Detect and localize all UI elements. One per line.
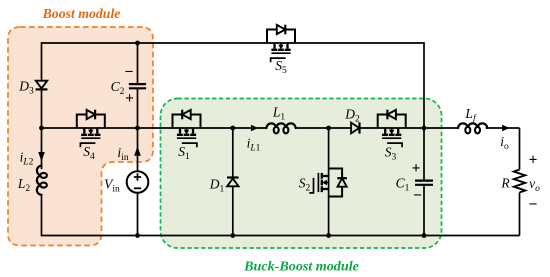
MOSFET S1 (173, 110, 201, 148)
current arrow i_L1 (251, 125, 259, 132)
svg-text:Boost module: Boost module (42, 6, 121, 21)
junction node row C1 (422, 126, 427, 131)
inductor Lf (458, 123, 487, 128)
junction bottom Vin (135, 233, 140, 238)
capacitor C1 (415, 180, 433, 182)
junction C2 top rail (135, 41, 140, 46)
wire output right branch upper (519, 128, 521, 170)
inductor L1 (267, 123, 296, 128)
wire L2 branch upper (41, 128, 43, 169)
current arrow i_L2 (38, 152, 45, 162)
inductor L2 (37, 166, 47, 195)
svg-text:R: R (500, 176, 510, 191)
wire L2 branch lower + bottom rail (42, 195, 520, 236)
diode D3 (36, 81, 47, 89)
Buck-Boost module region (161, 99, 442, 249)
wire left branch D3 cathode to node row (41, 89, 43, 128)
current arrow i_in (134, 146, 141, 156)
resistor R (514, 170, 525, 193)
wire S2 branch (328, 128, 330, 236)
wire Vin branch lower (137, 193, 139, 236)
junction bottom C1 (422, 233, 427, 238)
Boost module region (8, 27, 153, 246)
wire C2 branch upper (137, 43, 139, 84)
junction bottom S2 (326, 233, 331, 238)
wire node row middle segment (L1 to Lf) (295, 127, 458, 129)
junction node row S2 (326, 126, 331, 131)
MOSFET S5 (267, 25, 295, 63)
current arrow i_o (502, 125, 510, 132)
wire C1 branch upper (423, 128, 425, 180)
svg-text:−: − (529, 196, 538, 213)
wire D1 branch (232, 128, 234, 236)
svg-text:−: − (125, 64, 134, 81)
diode D2 (351, 123, 359, 134)
MOSFET S2 (309, 169, 347, 197)
wire C2 branch lower (137, 88, 139, 128)
junction node row C2/Vin (135, 126, 140, 131)
svg-text:+: + (412, 160, 421, 177)
voltage source Vin (127, 171, 149, 193)
svg-text:+: + (529, 152, 538, 169)
MOSFET S4 (77, 110, 105, 148)
svg-text:+: + (125, 90, 134, 107)
wire Vin branch upper (137, 128, 139, 171)
diode D1 (227, 179, 238, 187)
capacitor C2 (129, 83, 146, 85)
wire output right branch lower (519, 193, 521, 236)
junction bottom D1 (230, 233, 235, 238)
svg-text:Buck-Boost module: Buck-Boost module (243, 259, 359, 275)
junction node row D1 (230, 126, 235, 131)
wire top rail (D3 top to S5 to right corner) (42, 43, 425, 128)
wire node row right segment (Lf to output corner) (486, 127, 520, 129)
wire C1 branch lower (423, 185, 425, 236)
MOSFET S3 (378, 110, 406, 148)
wire node row left segment (42, 127, 267, 129)
svg-text:−: − (413, 187, 422, 204)
junction node row left (D3/L2/S4) (39, 126, 44, 131)
